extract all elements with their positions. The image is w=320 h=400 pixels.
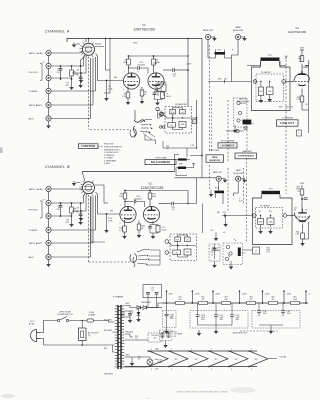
svg-text:AUX: AUX bbox=[29, 256, 35, 259]
svg-text:82: 82 bbox=[176, 252, 178, 254]
wire TUNER riser bbox=[51, 90, 95, 92]
svg-text:2: 2 bbox=[122, 78, 123, 80]
svg-text:680: 680 bbox=[110, 211, 113, 213]
svg-text:265V: 265V bbox=[300, 183, 305, 185]
B+ node +165V bbox=[262, 302, 264, 304]
svg-text:20UF: 20UF bbox=[201, 317, 205, 319]
ground at TAPE MONITOR A bbox=[241, 36, 244, 38]
input jack PHONO hi (ch B) bbox=[46, 200, 51, 205]
svg-text:V2: V2 bbox=[148, 182, 152, 186]
wire mech dashed TAPE OUT gang bbox=[209, 45, 211, 152]
wire to ch B controls bbox=[197, 178, 203, 233]
input jack TUNER (ch B) bbox=[46, 227, 51, 232]
svg-text:4: 4 bbox=[191, 369, 192, 371]
treble module outline (ch A) bbox=[252, 61, 291, 111]
B+ node +140V bbox=[305, 302, 307, 304]
svg-text:+150V: +150V bbox=[286, 294, 292, 296]
heater rails bbox=[147, 350, 257, 352]
svg-text:12AX7/ECC83: 12AX7/ECC83 bbox=[133, 27, 155, 31]
grid resistor R3 470K + ground bbox=[106, 80, 108, 82]
svg-text:MONITOR: MONITOR bbox=[233, 173, 243, 175]
svg-text:12AX7/ECC83: 12AX7/ECC83 bbox=[141, 186, 164, 190]
svg-text:4: 4 bbox=[171, 369, 172, 371]
svg-text:9: 9 bbox=[251, 349, 252, 351]
svg-text:EQUALIZER: EQUALIZER bbox=[175, 103, 187, 106]
resistor R19 470K (V2b plate) bbox=[149, 191, 151, 194]
triode V1b bbox=[148, 73, 164, 89]
rotary function switch wafer A (S1a) bbox=[83, 43, 95, 55]
svg-text:C (GANGED): C (GANGED) bbox=[282, 116, 294, 119]
input jack J3 PHONO lo (ch A) bbox=[46, 75, 51, 80]
filter caps dashed box 1 bbox=[163, 311, 177, 328]
wire B+ bus V1 bbox=[129, 39, 189, 107]
capacitor C33 (V3a) bbox=[302, 66, 307, 68]
resistor R22 (tone) bbox=[179, 122, 186, 128]
wire right edge feedback bbox=[308, 60, 310, 133]
svg-text:C4: C4 bbox=[76, 212, 78, 214]
svg-text:TAPE: TAPE bbox=[236, 169, 242, 172]
svg-text:AC OUTLET: AC OUTLET bbox=[88, 332, 99, 335]
contact + diagonal (balance feed) bbox=[156, 107, 159, 110]
resistor R55 47K (B+ chain) bbox=[269, 302, 278, 305]
heater chevron V4 bbox=[149, 351, 168, 367]
wire wafer A output to V1 grid bbox=[96, 54, 124, 81]
potentiometer P6b (solid bar) bbox=[178, 167, 186, 170]
capacitor right (V3b) bbox=[302, 198, 306, 200]
svg-text:4: 4 bbox=[231, 369, 232, 371]
svg-text:1.5M: 1.5M bbox=[285, 107, 289, 109]
svg-text:SHOWN IN POS 1: SHOWN IN POS 1 bbox=[104, 149, 120, 151]
resistor R54 47K (B+ chain) bbox=[247, 302, 256, 305]
svg-text:.02: .02 bbox=[172, 209, 175, 211]
svg-text:.05: .05 bbox=[186, 239, 188, 241]
svg-text:5%: 5% bbox=[299, 61, 302, 63]
ground below AUX jack (ch A) bbox=[48, 121, 50, 123]
input jack J4 TUNER (ch A) bbox=[46, 88, 51, 93]
wire bus tick bbox=[85, 39, 87, 43]
resistor R33 270K (V3a plate) bbox=[300, 56, 304, 62]
pilot light row bbox=[125, 357, 148, 367]
svg-text:10UF: 10UF bbox=[263, 313, 267, 315]
svg-text:TAPE AMPL: TAPE AMPL bbox=[29, 104, 44, 107]
input jack J5 TAPE AMPL (ch A) bbox=[46, 102, 51, 107]
svg-text:POT: POT bbox=[242, 253, 245, 255]
svg-text:82: 82 bbox=[171, 125, 173, 127]
loudness control blades (ch A) bbox=[134, 120, 145, 123]
capacitor C15 series network bbox=[156, 84, 166, 92]
resistor R32 (tone B) bbox=[184, 249, 191, 255]
cathode R36 (V3a) bbox=[301, 89, 303, 96]
svg-text:1.5: 1.5 bbox=[255, 251, 257, 253]
wire into module A bbox=[208, 80, 251, 83]
wire V2b out + cap C24 bbox=[159, 203, 172, 205]
ch B top bus bbox=[82, 171, 175, 173]
resistor 6.8K (module B) bbox=[256, 215, 257, 217]
wire monitor down bbox=[232, 40, 239, 58]
cathode resistor V3b bbox=[302, 224, 304, 234]
wire B+ bus V2 bbox=[125, 191, 188, 204]
tone network box (dashed, ch B) bbox=[170, 234, 197, 261]
resistor R53 25K (B+ chain) bbox=[222, 302, 231, 305]
filter cap C50 bbox=[129, 311, 131, 314]
B+ node +275V bbox=[191, 302, 193, 304]
svg-text:9: 9 bbox=[171, 349, 172, 351]
scan artifact bottom left bbox=[1, 394, 15, 398]
contact circles P rear bbox=[226, 245, 229, 248]
dashed box loudness right bbox=[234, 98, 248, 127]
svg-text:LOW CUT: LOW CUT bbox=[280, 121, 294, 125]
svg-text:450V: 450V bbox=[170, 318, 174, 320]
svg-text:CUT: CUT bbox=[266, 252, 269, 254]
scan artifact left edge bbox=[0, 148, 3, 154]
svg-text:4: 4 bbox=[151, 369, 152, 371]
svg-text:BLK-RED: BLK-RED bbox=[104, 320, 112, 322]
ground right mid bbox=[234, 125, 236, 128]
snubber cap box above bbox=[143, 285, 162, 298]
svg-text:.02: .02 bbox=[173, 76, 176, 78]
wire stubs below wafer A left bbox=[81, 55, 85, 66]
potentiometer bar (loudness right) bbox=[243, 120, 252, 125]
svg-text:DIAL: DIAL bbox=[155, 348, 159, 351]
ground P rear bbox=[230, 261, 232, 265]
resistor R1 2.2MEG (ch A phono) bbox=[71, 66, 73, 70]
wire stubs below wafer B left bbox=[81, 194, 85, 204]
triode V1a bbox=[123, 73, 139, 89]
wire ch B jacks to wafer bbox=[51, 188, 82, 190]
svg-text:FUNCTION: FUNCTION bbox=[81, 145, 95, 148]
svg-text:+275V: +275V bbox=[194, 294, 200, 296]
svg-text:P TRANSF: P TRANSF bbox=[113, 296, 124, 299]
resistor 6.8K (module A) bbox=[257, 81, 258, 83]
svg-text:.05: .05 bbox=[305, 210, 308, 212]
svg-text:FUNCTION SWITCH: FUNCTION SWITCH bbox=[104, 147, 122, 149]
svg-text:9: 9 bbox=[151, 349, 152, 351]
selector blades (ch B) bbox=[130, 254, 137, 263]
svg-text:PHONO: PHONO bbox=[29, 210, 38, 212]
wire V1b plate out bbox=[163, 69, 172, 71]
resistor R3 2.2MEG (ch B phono) bbox=[71, 203, 73, 207]
wires from selector B to right bbox=[147, 250, 160, 265]
wire PHONO lo bbox=[51, 77, 71, 79]
wire/box right of P rear bbox=[253, 247, 260, 254]
svg-text:+165V: +165V bbox=[186, 64, 192, 66]
rotary function switch wafer B (S1b) bbox=[83, 182, 95, 194]
svg-text:C26: C26 bbox=[211, 252, 214, 254]
svg-text:4- TAPE AMPL: 4- TAPE AMPL bbox=[104, 159, 117, 162]
svg-text:4: 4 bbox=[251, 369, 252, 371]
contact arrows (ch A loudness) bbox=[149, 124, 151, 126]
svg-text:10UF: 10UF bbox=[287, 313, 291, 315]
svg-text:20UF: 20UF bbox=[220, 317, 224, 319]
svg-text:LOUDNESS: LOUDNESS bbox=[220, 144, 234, 147]
bias tap row bbox=[125, 334, 137, 340]
svg-text:190V: 190V bbox=[133, 43, 138, 45]
heater chevron V8 bbox=[229, 351, 248, 367]
grid resistor R13 + ground (ch B) bbox=[106, 213, 108, 215]
resistor R8 1K cathode bypass bbox=[141, 87, 143, 90]
svg-text:— • —: — • — bbox=[146, 398, 151, 400]
triode V3a (half symbol) bbox=[294, 73, 310, 81]
svg-text:1- PHONO W-LP: 1- PHONO W-LP bbox=[104, 152, 119, 154]
grounds module B bbox=[260, 225, 262, 230]
secondary HV leads bbox=[125, 306, 134, 318]
heater chevron V6 bbox=[189, 351, 208, 367]
svg-text:GRN-WHT: GRN-WHT bbox=[104, 374, 114, 376]
ground cluster left of wafer B bbox=[76, 182, 80, 184]
svg-text:LGT: LGT bbox=[155, 369, 158, 371]
resistor R21 (tone) bbox=[168, 123, 176, 128]
svg-text:220: 220 bbox=[57, 72, 60, 74]
svg-text:(2): (2) bbox=[88, 335, 91, 337]
wire to tape out B bbox=[175, 177, 216, 179]
svg-text:C: C bbox=[309, 63, 310, 65]
wire into module B bbox=[222, 214, 252, 217]
svg-text:20UF: 20UF bbox=[236, 317, 240, 319]
wire top bus (tape head feed) bbox=[67, 39, 202, 43]
capacitor C1 220pf (ch A phono) bbox=[60, 66, 62, 69]
svg-text:680: 680 bbox=[114, 77, 117, 79]
svg-text:450V: 450V bbox=[236, 319, 240, 321]
svg-text:+165V: +165V bbox=[265, 294, 271, 296]
wire TAPE HEAD to switch bbox=[51, 52, 80, 54]
mech link dashes below wafer B bbox=[88, 195, 90, 262]
resistor R56 100K (B+ chain) bbox=[291, 302, 300, 305]
svg-text:.02: .02 bbox=[223, 232, 226, 234]
potentiometer P6a (solid bar) bbox=[178, 158, 187, 160]
svg-text:CHANNEL B: CHANNEL B bbox=[45, 165, 70, 169]
wire mech dashed loudness gang 2 bbox=[227, 100, 229, 162]
svg-text:50-6V: 50-6V bbox=[166, 96, 172, 98]
capacitor C14 coupling out bbox=[173, 68, 175, 72]
svg-text:P5 LOUDNESS: P5 LOUDNESS bbox=[221, 141, 235, 143]
wires pots routing bbox=[175, 155, 180, 172]
tone B wiring bbox=[172, 245, 196, 247]
resistor R16 2.7K cathode V2a bbox=[124, 220, 126, 226]
wire wafer B to V2 grid bbox=[96, 192, 121, 214]
svg-text:COMPENSATE: COMPENSATE bbox=[238, 155, 255, 158]
svg-text:300V: 300V bbox=[300, 48, 305, 50]
mech dashes ch B bbox=[209, 165, 211, 190]
svg-text:PHONO: PHONO bbox=[29, 72, 38, 74]
wire PHONO hi bbox=[51, 65, 81, 67]
wire treble pot feed bbox=[247, 61, 261, 66]
svg-text:R4 SERIES: R4 SERIES bbox=[157, 82, 167, 84]
resistor R52 22K (B+ chain) bbox=[199, 302, 208, 305]
input shunt + ground left of wafer A bbox=[72, 72, 81, 74]
filter caps dashed box 2 bbox=[190, 311, 248, 329]
grounds module A bbox=[260, 96, 262, 99]
heater chain right end bbox=[268, 358, 277, 360]
svg-text:BLK-WHT: BLK-WHT bbox=[104, 330, 113, 332]
input jack J6 AUX (ch A) bbox=[46, 116, 51, 121]
wire phono node up to switch bbox=[80, 60, 82, 66]
svg-text:C2: C2 bbox=[76, 75, 78, 77]
ground cluster left of wafer A bbox=[76, 43, 80, 45]
svg-text:(ELECTROLYTIC): (ELECTROLYTIC) bbox=[233, 333, 247, 335]
jack bus wire (ch A) bbox=[48, 56, 50, 64]
svg-text:C52B: C52B bbox=[263, 311, 267, 313]
svg-text:+140V: +140V bbox=[308, 294, 310, 296]
resistor R30 (tone B) bbox=[175, 237, 181, 241]
svg-text:POWER SWITCH: POWER SWITCH bbox=[57, 314, 73, 316]
scan artifact bottom right bbox=[230, 387, 256, 393]
svg-text:4: 4 bbox=[211, 369, 212, 371]
capacitor C30 (tone B) bbox=[184, 237, 190, 241]
wires right mid bbox=[226, 130, 244, 132]
resistor 150K (module B) bbox=[267, 218, 274, 225]
B+ node +250V bbox=[239, 302, 241, 304]
primary leads bbox=[113, 322, 115, 352]
svg-text:R41: R41 bbox=[217, 212, 220, 214]
svg-text:C26: C26 bbox=[210, 230, 213, 232]
dashed box P rear bbox=[223, 243, 243, 265]
B+ bus line bbox=[162, 302, 308, 304]
svg-text:4.7: 4.7 bbox=[138, 359, 140, 361]
svg-text:5%: 5% bbox=[297, 191, 300, 193]
contact circle tone in bbox=[160, 112, 164, 116]
wire module A out to V3 grid bbox=[285, 81, 294, 83]
input jack J1 TAPE HEAD (ch A) bbox=[46, 50, 51, 55]
svg-text:BAL/LOUDNESS: BAL/LOUDNESS bbox=[151, 161, 171, 164]
svg-text:12AX7/ECC83: 12AX7/ECC83 bbox=[288, 30, 307, 34]
B+ node 370V bbox=[166, 302, 168, 304]
svg-text:TAPE HEAD: TAPE HEAD bbox=[29, 52, 44, 55]
diode to ground bbox=[138, 308, 140, 313]
phono bracket (ch A) bbox=[40, 64, 42, 80]
treble module outline (ch B) bbox=[253, 195, 293, 245]
svg-text:+250V: +250V bbox=[242, 294, 248, 296]
svg-text:9: 9 bbox=[211, 349, 212, 351]
contact circles tone B bbox=[165, 240, 169, 244]
triode V2b bbox=[143, 206, 159, 222]
dashed gang low cut bbox=[285, 56, 287, 194]
dashed box C26 network bbox=[209, 244, 220, 261]
wire loudness out bbox=[145, 135, 156, 144]
svg-text:SELENIUM: SELENIUM bbox=[141, 302, 151, 304]
tone wiring bbox=[167, 117, 197, 119]
wafer A right contacts bbox=[106, 39, 111, 71]
input jack TAPE AMPL (ch B) bbox=[46, 240, 51, 245]
resistor R18 1K bbox=[138, 221, 140, 225]
svg-text:9: 9 bbox=[231, 349, 232, 351]
svg-text:5- AUX: 5- AUX bbox=[104, 162, 111, 165]
capacitor C51D bbox=[231, 303, 233, 315]
capacitor C3 220pf (ch B phono) bbox=[60, 203, 62, 206]
phono bracket (ch B) bbox=[40, 201, 42, 218]
resistor R6 2.7K cathode V1a bbox=[127, 87, 129, 93]
AC outlet (vertical) bbox=[79, 328, 87, 341]
svg-text:1/2 AMP: 1/2 AMP bbox=[88, 313, 96, 316]
svg-text:50-6V: 50-6V bbox=[162, 229, 168, 231]
heater chevron V5 bbox=[169, 351, 188, 367]
svg-text:(GANGED): (GANGED) bbox=[242, 150, 252, 153]
svg-text:.02: .02 bbox=[259, 211, 261, 213]
capacitor C20 (tone) bbox=[179, 110, 185, 114]
svg-text:5%: 5% bbox=[291, 107, 294, 109]
wafer B right contacts bbox=[95, 185, 108, 203]
svg-text:P3 GROUP: P3 GROUP bbox=[261, 72, 272, 74]
potentiometer bar vertical bbox=[238, 248, 241, 257]
ground pilot bbox=[131, 359, 133, 361]
input jack J2 PHONO hi (ch A) bbox=[46, 63, 51, 68]
svg-text:TAPE AMPL: TAPE AMPL bbox=[29, 242, 44, 245]
svg-text:450V: 450V bbox=[220, 319, 224, 321]
wire TAPE AMPL riser bbox=[51, 104, 93, 106]
svg-text:.02: .02 bbox=[211, 254, 213, 256]
wire mech dashed loudness gang 1 bbox=[211, 97, 213, 152]
ground top area bbox=[215, 232, 217, 236]
resistor 1.5M (module A) bbox=[267, 87, 274, 95]
svg-text:450V: 450V bbox=[201, 319, 205, 321]
dashed inner box (ch B module) bbox=[256, 208, 283, 229]
heater chevron V7 bbox=[209, 351, 228, 367]
svg-text:T.05: T.05 bbox=[269, 211, 272, 213]
svg-text:6.3V AC: 6.3V AC bbox=[280, 356, 288, 359]
svg-text:RED-BLK: RED-BLK bbox=[126, 332, 135, 334]
ground below AUX jack (ch B) bbox=[48, 260, 50, 262]
capacitor C52C bbox=[282, 303, 284, 311]
svg-text:2- TAPE HD: 2- TAPE HD bbox=[104, 154, 115, 157]
svg-text:TAPE HEAD: TAPE HEAD bbox=[29, 188, 44, 191]
wire AUX riser bbox=[51, 118, 90, 120]
svg-text:MONITOR: MONITOR bbox=[233, 30, 244, 32]
B+ node +265V bbox=[212, 302, 214, 304]
rectifier diodes D1 D2 bbox=[130, 306, 137, 308]
svg-text:7.5: 7.5 bbox=[135, 338, 138, 340]
capacitor C4 + ground (ch B) bbox=[80, 202, 82, 204]
TO box bbox=[192, 120, 197, 124]
ground at TAPE OUT A bbox=[211, 36, 214, 38]
resistor R15 470K (V2a plate) bbox=[124, 191, 126, 194]
dashed link to loudness bbox=[90, 129, 131, 131]
svg-text:GRN: GRN bbox=[126, 355, 131, 357]
mechanical link dashes below wafer A bbox=[88, 57, 90, 130]
resistor R20 + capacitor C17 cathode V2b bbox=[150, 221, 158, 226]
contact circle left bbox=[253, 80, 257, 84]
heater chevron V9 bbox=[249, 351, 268, 367]
svg-text:TUNER: TUNER bbox=[29, 91, 38, 93]
resistor R9 470K (V1b plate) bbox=[153, 56, 155, 59]
contact circles loudness switch (right) bbox=[237, 101, 240, 104]
svg-text:TAPE OUT: TAPE OUT bbox=[203, 29, 214, 32]
svg-text:P6 VOLUME: P6 VOLUME bbox=[156, 157, 168, 159]
wire V3a plate bbox=[301, 64, 303, 71]
resistor R51 10K (B+ chain) bbox=[176, 302, 185, 305]
wire monitor B down bbox=[234, 182, 239, 196]
filter caps dashed box 3 bbox=[252, 311, 300, 329]
jack bus wire (ch B) bbox=[48, 192, 50, 200]
svg-text:50: 50 bbox=[160, 89, 162, 91]
wire long vertical pair to volume pots bbox=[201, 39, 203, 156]
svg-text:220: 220 bbox=[57, 209, 60, 211]
stub caps right (ch B) bbox=[91, 196, 105, 243]
svg-text:C51B: C51B bbox=[201, 315, 205, 317]
FUNCTION switch label box bbox=[78, 144, 98, 149]
B+ node +150V bbox=[283, 302, 285, 304]
svg-text:C41: C41 bbox=[294, 208, 297, 210]
svg-text:P4 (REAR): P4 (REAR) bbox=[211, 249, 220, 252]
contact circle right bbox=[282, 80, 286, 84]
resistor R5 470K (V1a plate) bbox=[128, 56, 130, 59]
resistor R31 (tone B) bbox=[173, 250, 181, 255]
svg-text:TUNER: TUNER bbox=[29, 230, 38, 232]
resistor R10 + capacitor C7 cathode V1b bbox=[155, 88, 163, 93]
capacitor C2 + ground (ch A) bbox=[80, 65, 82, 67]
wire module B out to V3b grid bbox=[286, 215, 294, 217]
svg-text:P4 TREBLE: P4 TREBLE bbox=[260, 205, 271, 207]
svg-text:3- TUNER: 3- TUNER bbox=[104, 158, 113, 160]
triode V3b (half symbol) bbox=[294, 213, 310, 221]
